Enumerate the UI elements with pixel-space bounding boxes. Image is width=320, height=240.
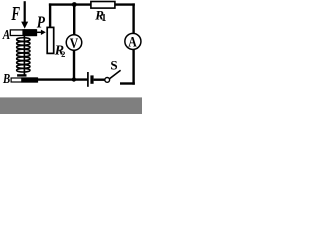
- junction dot bottom: [72, 77, 76, 81]
- node junction top: [72, 2, 77, 7]
- resistor R1: [91, 2, 115, 9]
- ammeter A: [125, 33, 141, 49]
- wire battery to switch: [94, 78, 105, 80]
- wire R2 top to rail: [49, 3, 51, 27]
- svg-text:V: V: [70, 36, 79, 52]
- voltmeter branch wire lower: [73, 51, 75, 81]
- rheostat R2: [47, 27, 54, 53]
- ground surface (gray band): [0, 97, 142, 114]
- lever bar AB: [10, 29, 36, 36]
- battery cell: [88, 72, 92, 87]
- wire top rail right: [115, 3, 135, 5]
- bottom wire: [37, 78, 88, 80]
- wire right side lower: [132, 50, 134, 85]
- spring: [17, 36, 30, 77]
- svg-text:A: A: [2, 27, 10, 42]
- wire switch fixed stub: [120, 82, 135, 84]
- slider arrow P: [37, 30, 46, 35]
- svg-text:F: F: [11, 4, 20, 25]
- support bar B: [11, 77, 37, 82]
- svg-text:P: P: [36, 12, 45, 31]
- svg-text:A: A: [128, 34, 137, 50]
- svg-text:R2: R2: [54, 44, 66, 59]
- force arrow F: [21, 1, 28, 28]
- switch S: [105, 70, 121, 82]
- voltmeter V: [66, 35, 82, 51]
- svg-text:S: S: [110, 57, 117, 72]
- wire right side upper: [132, 3, 134, 33]
- voltmeter branch wire upper: [73, 5, 75, 35]
- svg-text:B: B: [2, 72, 10, 87]
- wire top rail left: [49, 3, 91, 5]
